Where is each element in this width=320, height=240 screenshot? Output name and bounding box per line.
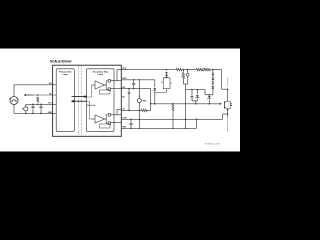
svg-text:FluxLink: FluxLink — [87, 105, 96, 107]
svg-text:IN+: IN+ — [49, 83, 52, 85]
svg-text:SCALE-iDriver: SCALE-iDriver — [50, 59, 73, 63]
svg-text:Primary Side: Primary Side — [59, 71, 72, 74]
svg-text:IN-: IN- — [49, 93, 52, 95]
svg-text:Logic: Logic — [62, 74, 68, 76]
svg-text:Logic: Logic — [98, 74, 104, 76]
svg-text:Secondary Side: Secondary Side — [93, 71, 109, 74]
svg-text:PI-8087-012119: PI-8087-012119 — [205, 144, 221, 146]
svg-text:GND: GND — [48, 112, 53, 114]
svg-text:VISO: VISO — [142, 100, 147, 102]
